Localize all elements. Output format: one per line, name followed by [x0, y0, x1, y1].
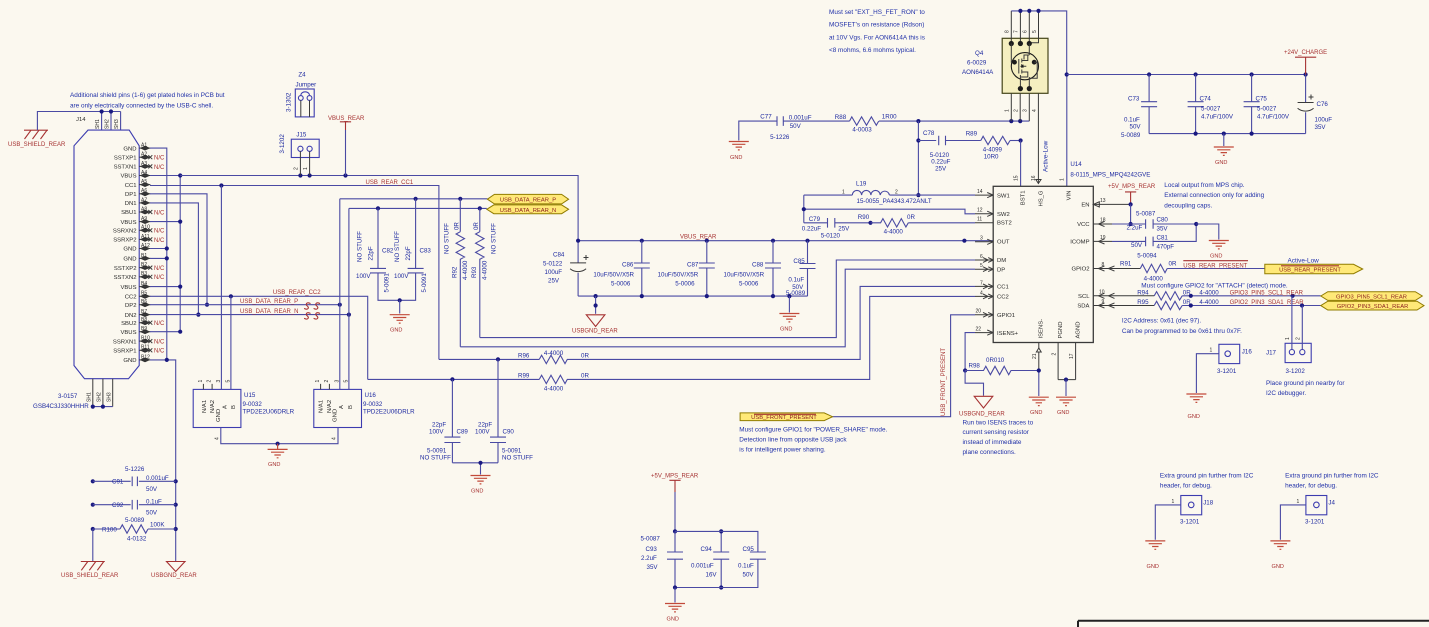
- svg-text:5-0006: 5-0006: [739, 281, 759, 288]
- svg-text:3-1201: 3-1201: [1305, 519, 1325, 526]
- svg-text:NO STUFF: NO STUFF: [394, 231, 401, 262]
- resistor R93 (0R NO STUFF, N net to DM run): [471, 208, 498, 337]
- svg-text:35V: 35V: [1315, 124, 1327, 131]
- svg-text:0.1uF: 0.1uF: [788, 277, 804, 284]
- svg-text:15: 15: [1013, 175, 1019, 181]
- svg-text:4-0003: 4-0003: [852, 127, 872, 134]
- svg-text:DM: DM: [997, 258, 1006, 264]
- J14 bottom SH pins: [87, 379, 113, 531]
- svg-text:2: 2: [1295, 337, 1301, 340]
- svg-text:4.7uF/100V: 4.7uF/100V: [1257, 113, 1290, 120]
- open-triangle ground USBGND_REAR (cap bank): [572, 296, 618, 334]
- svg-text:VBUS: VBUS: [120, 174, 136, 180]
- svg-text:plane connections.: plane connections.: [963, 449, 1017, 456]
- svg-text:C95: C95: [743, 546, 755, 553]
- svg-text:0.1uF: 0.1uF: [1124, 117, 1140, 124]
- svg-text:B: B: [231, 405, 237, 409]
- svg-text:9-0032: 9-0032: [243, 401, 263, 408]
- svg-text:C81: C81: [1157, 234, 1169, 241]
- svg-text:U16: U16: [365, 392, 377, 399]
- svg-text:USB_FRONT_PRESENT: USB_FRONT_PRESENT: [941, 348, 947, 416]
- svg-text:3-1302: 3-1302: [286, 92, 293, 112]
- svg-text:17: 17: [1069, 353, 1075, 359]
- svg-text:5: 5: [980, 263, 983, 269]
- svg-text:SCL: SCL: [1078, 294, 1090, 300]
- svg-text:0R: 0R: [454, 222, 461, 230]
- svg-text:USB_REAR_PRESENT: USB_REAR_PRESENT: [1183, 263, 1247, 269]
- svg-text:R99: R99: [518, 372, 530, 379]
- svg-text:Extra ground pin further from: Extra ground pin further from I2C: [1285, 473, 1379, 480]
- svg-text:SSTXN1: SSTXN1: [114, 165, 137, 171]
- svg-text:USB_REAR_PRESENT: USB_REAR_PRESENT: [1279, 268, 1341, 274]
- svg-text:N/C: N/C: [154, 275, 165, 281]
- svg-text:USB_SHIELD_REAR: USB_SHIELD_REAR: [61, 573, 119, 579]
- capacitor C84 polarized 100uF: [543, 241, 589, 296]
- svg-text:4-4000: 4-4000: [544, 350, 564, 357]
- wire USB_DATA_REAR_P row (B6): [150, 303, 342, 307]
- svg-text:22pF: 22pF: [478, 422, 492, 429]
- wire ISENS+ to R98: [963, 333, 975, 373]
- wire Q4 drain bus to +24V riser: [1011, 9, 1066, 75]
- svg-text:4-4000: 4-4000: [544, 386, 564, 393]
- svg-text:GSB4C3J330HHHR: GSB4C3J330HHHR: [33, 403, 89, 410]
- svg-text:C80: C80: [1157, 217, 1169, 224]
- svg-text:SSRXP1: SSRXP1: [113, 349, 136, 355]
- capacitor C83 (NO STUFF): [394, 199, 431, 300]
- net flag USB_DATA_REAR_N: [487, 205, 569, 214]
- svg-text:C83: C83: [420, 248, 432, 255]
- svg-text:3-1201: 3-1201: [1180, 519, 1200, 526]
- svg-text:Must set "EXT_HS_FET_RON" to: Must set "EXT_HS_FET_RON" to: [829, 9, 925, 16]
- svg-text:GND: GND: [216, 409, 222, 422]
- svg-text:SSRXN2: SSRXN2: [113, 229, 137, 235]
- svg-text:GPIO2_PIN3_SDA1_REAR: GPIO2_PIN3_SDA1_REAR: [1230, 300, 1305, 306]
- wire USB_REAR_CC2 run: [150, 294, 368, 379]
- svg-text:1: 1: [1172, 499, 1175, 505]
- svg-text:VBUS: VBUS: [120, 220, 136, 226]
- svg-text:0.001uF: 0.001uF: [691, 563, 714, 570]
- svg-text:SH1: SH1: [87, 392, 93, 402]
- svg-text:ISENS-: ISENS-: [1039, 319, 1045, 339]
- svg-text:9-0032: 9-0032: [363, 401, 383, 408]
- wire PGND/AGND bus: [1058, 378, 1076, 397]
- resistor R98 0R010: [965, 357, 1041, 375]
- svg-text:TPD2E2U06DRLR: TPD2E2U06DRLR: [243, 409, 295, 416]
- svg-text:C75: C75: [1256, 96, 1268, 103]
- connector J17: [1266, 296, 1311, 375]
- svg-text:J14: J14: [76, 117, 86, 123]
- svg-text:6: 6: [980, 254, 983, 260]
- shield ground symbol USB_SHIELD_REAR (bottom): [61, 529, 119, 579]
- svg-text:4-4000: 4-4000: [1144, 276, 1164, 283]
- connector J14 USB-C body: [74, 117, 139, 379]
- svg-text:10uF/50V/X5R: 10uF/50V/X5R: [593, 272, 634, 279]
- svg-text:4: 4: [980, 290, 983, 296]
- power symbol +24V_CHARGE: [1284, 50, 1327, 75]
- svg-text:C89: C89: [457, 429, 469, 436]
- svg-text:0.1uF: 0.1uF: [146, 499, 162, 506]
- svg-text:5-0006: 5-0006: [611, 281, 631, 288]
- svg-text:header, for debug.: header, for debug.: [1285, 483, 1337, 490]
- svg-text:C86: C86: [622, 262, 634, 269]
- svg-text:100V: 100V: [429, 429, 444, 436]
- svg-text:NO STUFF: NO STUFF: [357, 231, 364, 262]
- ground GND (C80/C81): [1196, 224, 1229, 260]
- svg-text:N/C: N/C: [154, 156, 165, 162]
- svg-text:3: 3: [334, 380, 340, 383]
- resistor R92 (0R NO STUFF, P net to DP run): [443, 199, 469, 347]
- capacitor C87: [658, 241, 715, 296]
- svg-text:1: 1: [1297, 499, 1300, 505]
- svg-text:2: 2: [1052, 353, 1058, 356]
- svg-text:13: 13: [1100, 198, 1106, 204]
- svg-text:100K: 100K: [150, 522, 165, 529]
- svg-text:4-4099: 4-4099: [983, 146, 1003, 153]
- resistor R100: [93, 517, 176, 543]
- svg-text:J16: J16: [1242, 349, 1253, 356]
- wire USB_DATA_REAR_N row (B7): [150, 313, 351, 317]
- svg-text:GND: GND: [780, 327, 792, 333]
- diff-pair squiggle on N row: [305, 313, 320, 319]
- svg-text:5-0089: 5-0089: [1121, 132, 1141, 139]
- svg-text:DP: DP: [997, 267, 1005, 273]
- svg-text:U15: U15: [244, 392, 256, 399]
- svg-text:Q4: Q4: [975, 50, 984, 57]
- resistor R88: [835, 114, 1030, 134]
- wire U15/U16 pin4 GND bus: [221, 428, 338, 446]
- svg-text:C87: C87: [687, 262, 699, 269]
- svg-text:3: 3: [980, 236, 983, 242]
- U14 right pin stubs: [1093, 198, 1114, 308]
- svg-text:1: 1: [303, 167, 309, 170]
- svg-text:AON6414A: AON6414A: [962, 69, 994, 76]
- wire SW2 row: [802, 195, 975, 223]
- svg-text:C76: C76: [1317, 101, 1329, 108]
- connector J18: [1155, 473, 1253, 540]
- svg-text:5-0091: 5-0091: [384, 273, 391, 293]
- net flag GPIO2_PIN3_SDA1_REAR: [1321, 301, 1424, 310]
- svg-text:1: 1: [1210, 348, 1213, 354]
- wire HS_G gate line (Q4 pin4 to U14 pin16): [1037, 93, 1039, 183]
- svg-text:GPIO2_PIN3_SDA1_REAR: GPIO2_PIN3_SDA1_REAR: [1337, 304, 1409, 310]
- svg-text:3: 3: [216, 380, 222, 383]
- svg-text:5-0089: 5-0089: [125, 517, 145, 524]
- svg-text:Can be programmed to be 0x61 t: Can be programmed to be 0x61 thru 0x7F.: [1122, 328, 1242, 335]
- note: EXT_HS_FET_RON annotation: [829, 9, 925, 54]
- svg-text:10uF/50V/X5R: 10uF/50V/X5R: [658, 272, 699, 279]
- svg-text:EN: EN: [1081, 203, 1089, 209]
- capacitor C85: [786, 241, 816, 297]
- wire VBUS_REAR / OUT bus: [576, 239, 993, 243]
- svg-text:2: 2: [895, 189, 898, 195]
- capacitor C80: [1112, 211, 1196, 233]
- svg-text:VBUS: VBUS: [120, 285, 136, 291]
- svg-text:5-0120: 5-0120: [821, 233, 841, 240]
- svg-text:0R: 0R: [907, 214, 915, 221]
- svg-text:R89: R89: [966, 131, 978, 138]
- svg-text:5: 5: [344, 380, 350, 383]
- power symbol VBUS_REAR: [328, 116, 365, 176]
- shield ground symbol USB_SHIELD_REAR (top): [8, 130, 66, 148]
- svg-text:2.2uF: 2.2uF: [641, 555, 657, 562]
- svg-text:0.001uF: 0.001uF: [146, 475, 169, 482]
- svg-text:2: 2: [294, 167, 300, 170]
- svg-text:GND: GND: [1147, 564, 1159, 570]
- svg-text:2: 2: [207, 380, 213, 383]
- svg-text:B: B: [348, 405, 354, 409]
- wire P-net top run to flag: [340, 197, 488, 201]
- capacitor C82 (NO STUFF): [356, 208, 400, 300]
- svg-text:header, for debug.: header, for debug.: [1160, 483, 1212, 490]
- capacitor C74: [1188, 75, 1234, 134]
- svg-text:GND: GND: [123, 257, 136, 263]
- svg-text:CC1: CC1: [125, 183, 137, 189]
- svg-text:+5V_MPS_REAR: +5V_MPS_REAR: [651, 474, 699, 480]
- svg-text:USBGND_REAR: USBGND_REAR: [959, 412, 1005, 418]
- svg-text:4-4000: 4-4000: [884, 229, 904, 236]
- svg-text:C94: C94: [701, 546, 713, 553]
- svg-text:N/A1: N/A1: [318, 400, 324, 413]
- svg-text:0R010: 0R010: [986, 357, 1005, 364]
- svg-text:100V: 100V: [394, 273, 409, 280]
- svg-text:4: 4: [214, 437, 220, 440]
- svg-text:NO STUFF: NO STUFF: [420, 455, 451, 462]
- capacitor C93: [641, 529, 684, 587]
- svg-text:470pF: 470pF: [1157, 243, 1175, 250]
- svg-text:5-0006: 5-0006: [675, 281, 695, 288]
- svg-text:GND: GND: [268, 462, 280, 468]
- svg-text:instead of immediate: instead of immediate: [963, 439, 1022, 446]
- svg-text:21: 21: [1032, 353, 1038, 359]
- svg-text:GND: GND: [1272, 564, 1284, 570]
- svg-text:VIN: VIN: [1067, 191, 1073, 201]
- wire +24V bus: [1067, 72, 1308, 76]
- svg-text:ICOMP: ICOMP: [1070, 240, 1089, 246]
- open-triangle ground USBGND_REAR (bottom-left): [151, 562, 197, 580]
- svg-text:5: 5: [226, 380, 232, 383]
- svg-text:BST2: BST2: [997, 221, 1012, 227]
- wire VBUS_REAR run to cap bank: [180, 173, 578, 240]
- note: local output from MPS chip: [1164, 182, 1264, 209]
- svg-text:DN2: DN2: [125, 313, 137, 319]
- svg-text:GND: GND: [123, 146, 136, 152]
- svg-text:R93: R93: [471, 266, 478, 278]
- node USB_REAR_PRESENT label (active-low): [1183, 261, 1248, 270]
- svg-text:VCC: VCC: [1077, 222, 1090, 228]
- svg-text:5-1226: 5-1226: [770, 134, 790, 141]
- svg-text:SH1: SH1: [95, 119, 101, 129]
- svg-text:USB_DATA_REAR_N: USB_DATA_REAR_N: [500, 208, 556, 214]
- inductor L19: [804, 180, 975, 205]
- wire GPIO1 to USB_FRONT_PRESENT flag: [833, 315, 976, 417]
- svg-text:R98: R98: [969, 363, 981, 370]
- svg-text:3-0157: 3-0157: [58, 393, 78, 400]
- wire +24V caps bottom bus: [1149, 132, 1306, 136]
- svg-text:5-0087: 5-0087: [641, 536, 661, 543]
- net flag USB_DATA_REAR_P: [487, 194, 568, 204]
- svg-text:SSTXN2: SSTXN2: [114, 275, 137, 281]
- capacitor C95: [675, 531, 766, 587]
- svg-text:DP1: DP1: [125, 192, 136, 198]
- svg-text:are only electrically connecte: are only electrically connected by the U…: [70, 103, 213, 110]
- svg-text:GND: GND: [123, 247, 136, 253]
- svg-text:5: 5: [1032, 30, 1038, 33]
- ground GND (J16): [1186, 394, 1206, 420]
- svg-text:SSTXP2: SSTXP2: [114, 266, 137, 272]
- svg-text:USB_DATA_REAR_P: USB_DATA_REAR_P: [500, 198, 556, 204]
- svg-text:NO STUFF: NO STUFF: [502, 455, 533, 462]
- svg-text:Local output from MPS chip.: Local output from MPS chip.: [1164, 182, 1245, 189]
- ground GND (C89/C90): [471, 476, 491, 495]
- net flag GPIO3_PIN5_SCL1_REAR: [1321, 292, 1423, 301]
- svg-text:3-1201: 3-1201: [1217, 368, 1237, 375]
- wire C89/C90 gnd bus: [452, 461, 498, 475]
- svg-text:5-0091: 5-0091: [427, 448, 447, 455]
- svg-text:5-0087: 5-0087: [1136, 211, 1156, 218]
- svg-text:5-0091: 5-0091: [421, 273, 428, 293]
- note: shield pins annotation: [70, 92, 225, 110]
- svg-text:25V: 25V: [838, 226, 850, 233]
- svg-text:R100: R100: [102, 527, 117, 534]
- capacitor C91: [93, 466, 176, 493]
- svg-text:GPIO1: GPIO1: [997, 313, 1015, 319]
- svg-text:GND: GND: [1030, 410, 1042, 416]
- svg-text:50V: 50V: [743, 572, 755, 579]
- svg-text:SH2: SH2: [105, 119, 111, 129]
- svg-text:CC2: CC2: [997, 295, 1009, 301]
- svg-text:9: 9: [1102, 299, 1105, 305]
- svg-text:A: A: [339, 405, 345, 409]
- svg-text:N/C: N/C: [154, 210, 165, 216]
- capacitor C79: [802, 216, 871, 239]
- svg-text:USB_REAR_CC2: USB_REAR_CC2: [273, 290, 321, 296]
- U14 top/bottom pin numbers and markers: [1013, 175, 1075, 396]
- op-amp U14 MPQ4242GVE body: [993, 161, 1150, 343]
- svg-text:7: 7: [980, 280, 983, 286]
- svg-text:Active-Low: Active-Low: [1043, 140, 1050, 172]
- svg-text:GPIO3_PIN5_SCL1_REAR: GPIO3_PIN5_SCL1_REAR: [1336, 294, 1407, 300]
- svg-text:1: 1: [1005, 109, 1011, 112]
- svg-text:is for intelligent power shari: is for intelligent power sharing.: [739, 447, 826, 454]
- svg-text:16V: 16V: [706, 572, 718, 579]
- svg-text:SBU1: SBU1: [121, 210, 136, 216]
- svg-text:USB_DATA_REAR_N: USB_DATA_REAR_N: [240, 309, 298, 315]
- svg-text:SW2: SW2: [997, 212, 1010, 218]
- svg-text:10R0: 10R0: [984, 153, 999, 160]
- svg-text:SBU2: SBU2: [121, 321, 136, 327]
- svg-text:4-4000: 4-4000: [482, 260, 489, 280]
- wire EN to +5V: [1112, 202, 1133, 226]
- svg-text:4-4000: 4-4000: [462, 260, 469, 280]
- svg-text:5-0027: 5-0027: [1257, 105, 1277, 112]
- svg-text:0.22uF: 0.22uF: [802, 226, 821, 233]
- net flag USB_REAR_PRESENT: [1265, 258, 1363, 274]
- connector J4: [1280, 473, 1379, 540]
- svg-text:decoupling caps.: decoupling caps.: [1164, 202, 1212, 209]
- svg-text:50V: 50V: [1130, 124, 1142, 131]
- resistor R94 (SCL): [1112, 290, 1321, 300]
- svg-text:VBUS: VBUS: [120, 330, 136, 336]
- power symbol +5V_MPS_REAR (bottom): [651, 474, 699, 532]
- diff-pair squiggle on P row: [305, 303, 320, 309]
- svg-text:SSTXP1: SSTXP1: [114, 155, 137, 161]
- svg-text:GND: GND: [730, 155, 742, 161]
- svg-text:1: 1: [1059, 178, 1065, 181]
- capacitor C81: [1112, 222, 1198, 260]
- resistor R95 (SDA): [1112, 299, 1321, 309]
- ground GND (+24V caps): [1214, 134, 1234, 166]
- wire USB_REAR_CC1 run: [150, 183, 439, 359]
- connector J16: [1196, 344, 1252, 393]
- capacitor C89 (NO STUFF): [420, 379, 468, 462]
- svg-text:0R: 0R: [1183, 290, 1191, 297]
- svg-text:TPD2E2U06DRLR: TPD2E2U06DRLR: [363, 409, 415, 416]
- svg-text:35V: 35V: [647, 564, 659, 571]
- wire VIN riser: [1065, 72, 1069, 186]
- resistor R89: [966, 131, 1023, 161]
- svg-text:SSRXN1: SSRXN1: [113, 339, 137, 345]
- svg-text:GND: GND: [471, 489, 483, 495]
- svg-text:SSRXP2: SSRXP2: [113, 238, 136, 244]
- svg-text:PGND: PGND: [1058, 321, 1064, 338]
- svg-text:2: 2: [1014, 109, 1020, 112]
- svg-text:100uF: 100uF: [545, 269, 563, 276]
- ESD diode U16 TPD2E2U06DRLR: [314, 199, 415, 440]
- svg-text:R90: R90: [858, 214, 870, 221]
- capacitor C77: [760, 114, 849, 141]
- note: I2C address: [1122, 318, 1242, 335]
- capacitor C73: [1121, 75, 1157, 139]
- svg-text:USB_DATA_REAR_P: USB_DATA_REAR_P: [240, 299, 298, 305]
- svg-text:I2C Address: 0x61 (dec 97).: I2C Address: 0x61 (dec 97).: [1122, 318, 1201, 325]
- svg-text:USB_SHIELD_REAR: USB_SHIELD_REAR: [8, 142, 66, 148]
- svg-text:0R: 0R: [1169, 261, 1177, 268]
- ground GND (J18): [1145, 541, 1165, 570]
- svg-text:N/C: N/C: [154, 349, 165, 355]
- svg-text:25V: 25V: [548, 278, 560, 285]
- note: ISENS routing: [963, 419, 1034, 455]
- svg-text:N/C: N/C: [154, 229, 165, 235]
- capacitor C88: [724, 241, 782, 296]
- svg-text:1: 1: [315, 380, 321, 383]
- resistor R99 (CC2 0R): [368, 296, 975, 392]
- svg-text:GPIO2: GPIO2: [1071, 267, 1089, 273]
- svg-text:5-1226: 5-1226: [125, 466, 145, 473]
- svg-text:+24V_CHARGE: +24V_CHARGE: [1284, 50, 1327, 56]
- svg-text:R92: R92: [451, 266, 458, 278]
- capacitor C90 (NO STUFF): [475, 359, 533, 462]
- svg-text:SW1: SW1: [997, 193, 1010, 199]
- svg-text:C84: C84: [553, 252, 565, 259]
- svg-text:USB_REAR_CC1: USB_REAR_CC1: [366, 180, 414, 186]
- wire shield net to J14 SH pins: [37, 109, 120, 130]
- svg-text:15-0055_PA4343.472ANLT: 15-0055_PA4343.472ANLT: [857, 198, 932, 205]
- svg-text:GND: GND: [123, 358, 136, 364]
- svg-text:1: 1: [1285, 337, 1291, 340]
- capacitor C86: [593, 241, 649, 296]
- ground GND (U15/U16): [268, 444, 288, 468]
- svg-text:OUT: OUT: [997, 240, 1010, 246]
- svg-text:Z4: Z4: [298, 72, 306, 79]
- svg-text:R88: R88: [835, 114, 847, 121]
- svg-text:4.7uF/100V: 4.7uF/100V: [1201, 113, 1234, 120]
- svg-text:0R: 0R: [473, 222, 480, 230]
- svg-text:USBGND_REAR: USBGND_REAR: [572, 329, 618, 335]
- capacitor C92: [93, 499, 176, 517]
- svg-text:Detection line from opposite U: Detection line from opposite USB jack: [739, 437, 847, 444]
- svg-text:4-0132: 4-0132: [127, 536, 147, 543]
- svg-text:3-1202: 3-1202: [1286, 368, 1306, 375]
